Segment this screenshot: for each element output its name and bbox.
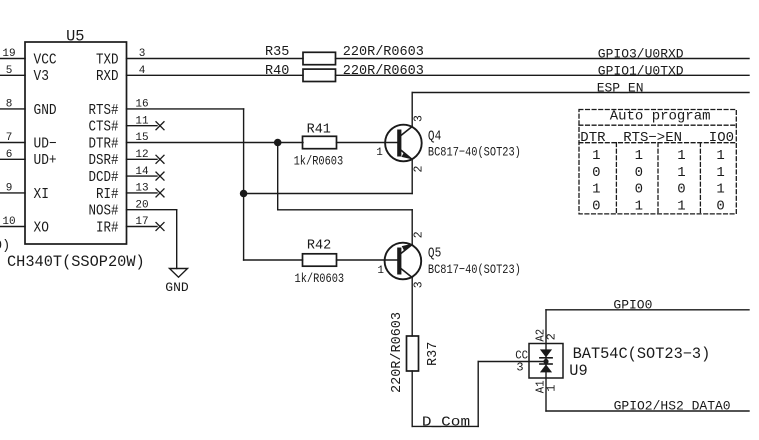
no-connect X on DCD# [156, 172, 164, 180]
resistor R41 [303, 136, 337, 148]
svg-text:TXD: TXD [96, 51, 119, 68]
wire RTS# pin16 horizontal [127, 108, 244, 110]
svg-text:9: 9 [6, 183, 13, 195]
junction dot RTS/emitter [240, 190, 248, 198]
svg-text:CH340T(SSOP20W): CH340T(SSOP20W) [7, 253, 145, 271]
svg-text:ESP_EN: ESP_EN [597, 80, 644, 95]
wire U5 left pin 8 GND [0, 108, 25, 110]
svg-text:1k/R0603: 1k/R0603 [295, 272, 345, 286]
svg-text:0: 0 [635, 182, 643, 198]
diode pair U9 body [529, 344, 563, 379]
wire Q4 collector to ESP_EN [411, 93, 413, 127]
svg-text:R37: R37 [426, 342, 441, 366]
svg-text:R41: R41 [307, 122, 331, 137]
wire U5 left pin 6 UD+ [0, 158, 25, 160]
svg-text:XO: XO [34, 219, 49, 236]
junction dot DTR/R41 [274, 139, 282, 147]
wire DTR riser horizontal [278, 209, 413, 211]
svg-text:BAT54C(SOT23−3): BAT54C(SOT23−3) [573, 345, 711, 363]
svg-text:0: 0 [592, 165, 600, 181]
wire Q4 emitter down [411, 160, 413, 194]
svg-text:3: 3 [516, 361, 523, 375]
svg-text:GPIO1/U0TXD: GPIO1/U0TXD [598, 63, 684, 78]
wire U5 left pin 9 XI [0, 192, 25, 194]
svg-text:GND: GND [165, 280, 189, 295]
svg-text:DCD#: DCD# [89, 169, 119, 186]
svg-text:Auto program: Auto program [610, 109, 711, 125]
svg-text:D_Com: D_Com [422, 415, 470, 431]
wire R37 down [411, 371, 413, 426]
wire GPIO0 [546, 309, 749, 311]
svg-text:1: 1 [677, 148, 685, 164]
wire to U9 pin 3 [478, 361, 546, 363]
wire U5 left pin 7 UD− [0, 142, 25, 144]
svg-text:220R/R0603: 220R/R0603 [343, 45, 424, 60]
svg-text:GPIO2/HS2_DATA0: GPIO2/HS2_DATA0 [614, 399, 731, 414]
svg-text:1: 1 [677, 198, 685, 214]
wire U5 left pin 10 XO [0, 226, 25, 228]
svg-text:RXD: RXD [96, 68, 119, 85]
svg-text:2: 2 [412, 166, 425, 173]
resistor R37 (vertical) [407, 336, 419, 371]
svg-text:1: 1 [716, 165, 724, 181]
wire down to Q5 emitter [411, 210, 413, 245]
svg-text:UD+: UD+ [34, 152, 57, 169]
svg-text:Q5: Q5 [428, 245, 441, 261]
table column divider 1 [615, 143, 617, 214]
wire R42 to Q5 base [337, 259, 400, 261]
wire GPIO2 [546, 410, 749, 412]
svg-text:R40: R40 [265, 64, 289, 79]
no-connect X on DSR# [156, 155, 164, 163]
table header separator [579, 142, 736, 144]
svg-text:1: 1 [677, 165, 685, 181]
wire ESP_EN [412, 92, 749, 94]
wire Q4 emitter to RTS vertical [244, 193, 413, 195]
diode D bottom (A1 to common cathode) [540, 363, 552, 365]
svg-text:UD−: UD− [34, 135, 57, 152]
svg-text:R42: R42 [307, 238, 331, 253]
svg-text:DTR#: DTR# [89, 135, 119, 152]
svg-text:GPIO0: GPIO0 [613, 298, 652, 313]
table title separator [579, 124, 736, 126]
wire stub pin 11 CTS# [127, 125, 158, 127]
svg-text:10: 10 [2, 216, 15, 228]
svg-text:IR#: IR# [96, 219, 119, 236]
svg-text:DTR: DTR [580, 130, 606, 146]
svg-text:1: 1 [635, 198, 643, 214]
transistor Q4 [385, 125, 422, 162]
svg-text:1: 1 [376, 147, 383, 159]
svg-text:2: 2 [544, 333, 558, 340]
svg-text:0: 0 [592, 198, 600, 214]
wire RXD pin4 to R40 [127, 74, 304, 76]
no-connect X on RI# [156, 189, 164, 197]
wire stub pin 17 IR# [127, 226, 158, 228]
wire NOS# vertical to GND [176, 210, 178, 269]
svg-text:1k/R0603: 1k/R0603 [294, 154, 344, 168]
wire DTR# pin15 to R41 [127, 142, 304, 144]
svg-text:3: 3 [412, 281, 425, 288]
svg-text:1: 1 [635, 148, 643, 164]
svg-text:RTS#: RTS# [89, 102, 119, 119]
svg-text:2: 2 [412, 231, 425, 238]
svg-text:1: 1 [592, 148, 600, 164]
wire R35 to GPIO3 [336, 58, 750, 60]
wire stub pin 13 RI# [127, 192, 158, 194]
svg-text:1: 1 [716, 148, 724, 164]
wire stub pin 12 DSR# [127, 158, 158, 160]
svg-text:BC817−40(SOT23): BC817−40(SOT23) [428, 144, 521, 159]
svg-text:0: 0 [716, 198, 724, 214]
svg-text:1: 1 [716, 182, 724, 198]
svg-text:0): 0) [0, 239, 10, 254]
svg-text:RI#: RI# [96, 186, 119, 203]
svg-text:CTS#: CTS# [89, 119, 119, 136]
transistor Q5 [385, 243, 422, 280]
wire U5 left pin 19 VCC [0, 58, 25, 60]
svg-text:R35: R35 [265, 45, 289, 60]
wire TXD pin3 to R35 [127, 58, 304, 60]
svg-text:V3: V3 [34, 68, 49, 85]
wire U9 vertical through [545, 310, 547, 411]
svg-text:0: 0 [677, 182, 685, 198]
svg-text:220R/R0603: 220R/R0603 [390, 312, 405, 393]
wire RTS# corner to R42 [244, 259, 303, 261]
wire R40 to GPIO1 [336, 74, 750, 76]
svg-text:Q4: Q4 [428, 129, 441, 145]
junction dot U9 common cathode [543, 359, 548, 364]
svg-text:5: 5 [6, 65, 13, 77]
svg-text:6: 6 [6, 149, 13, 161]
table column divider 2 [657, 143, 659, 214]
svg-text:U9: U9 [569, 362, 587, 380]
svg-text:XI: XI [34, 186, 49, 203]
svg-text:0: 0 [635, 165, 643, 181]
wire Q5 collector to R37 [411, 278, 413, 337]
svg-text:IO0: IO0 [709, 130, 734, 146]
resistor R40 [303, 69, 336, 81]
wire stub pin 14 DCD# [127, 175, 158, 177]
diode D top (A2 to common cathode) [540, 349, 552, 357]
wire DTR riser down [277, 143, 279, 210]
svg-text:1: 1 [377, 265, 384, 277]
svg-text:220R/R0603: 220R/R0603 [343, 64, 424, 79]
no-connect X on IR# [156, 223, 164, 231]
IC U5 body CH340T [25, 42, 127, 244]
svg-text:VCC: VCC [34, 51, 57, 68]
wire U5 left pin 5 V3 [0, 74, 25, 76]
svg-text:8: 8 [6, 99, 13, 111]
svg-text:7: 7 [6, 132, 13, 144]
wire R41 to Q4 base [337, 142, 400, 144]
svg-text:19: 19 [2, 48, 15, 60]
wire D_Com horizontal [412, 425, 478, 427]
svg-text:GPIO3/U0RXD: GPIO3/U0RXD [598, 46, 684, 61]
svg-text:3: 3 [412, 115, 425, 122]
svg-text:NOS#: NOS# [89, 203, 119, 220]
svg-text:1: 1 [544, 385, 558, 392]
svg-text:DSR#: DSR# [89, 152, 119, 169]
node Auto program table frame [579, 110, 736, 214]
svg-text:BC817−40(SOT23): BC817−40(SOT23) [428, 262, 521, 277]
svg-text:RTS−>EN: RTS−>EN [623, 130, 682, 146]
no-connect X on CTS# [156, 122, 164, 130]
table column divider 3 [699, 143, 701, 214]
wire RTS# vertical down to R42 row [243, 109, 245, 260]
ground [170, 269, 188, 278]
resistor R35 [303, 52, 336, 64]
svg-text:1: 1 [592, 182, 600, 198]
svg-text:GND: GND [34, 102, 57, 119]
resistor R42 [303, 254, 337, 266]
wire NOS# pin20 horizontal [127, 209, 177, 211]
wire riser up to U9 pin3 [477, 362, 479, 427]
